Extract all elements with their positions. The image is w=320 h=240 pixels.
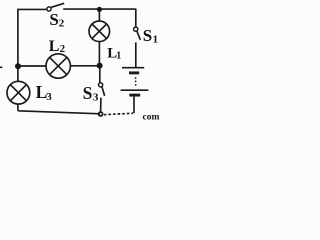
svg-text:2: 2 (60, 43, 66, 55)
label S2 (49, 10, 64, 29)
svg-text:S: S (143, 26, 152, 45)
label S1 (143, 26, 158, 45)
node: bottom junction (S3 bottom terminal) (99, 112, 103, 116)
wire: stray tick at image left edge (0, 66, 2, 68)
wire: battery down to bottom-right corner (133, 97, 135, 114)
lamp L3 (7, 81, 30, 104)
wire: lamp L1 down to mid junction (98, 42, 100, 66)
wire: switch S3 to bottom node (100, 98, 102, 113)
wire: switch S1 down to battery (135, 42, 137, 67)
svg-text:S: S (83, 83, 93, 103)
switch S3 (99, 83, 105, 96)
svg-text:3: 3 (93, 91, 99, 103)
wire: lamp L3 down to bottom-left corner (17, 104, 19, 111)
lamp L1 (89, 21, 110, 42)
svg-text:3: 3 (46, 91, 52, 103)
wire: lamp L2 to mid junction (70, 65, 99, 67)
battery cell2 short plate (129, 94, 140, 97)
label S3 (83, 83, 99, 103)
node: top junction (97, 7, 102, 12)
svg-text:1: 1 (116, 50, 121, 61)
svg-text:2: 2 (59, 17, 65, 29)
wire: middle run from left junction to lamp L2 (18, 65, 46, 67)
wire right edge (top-right corner down to switch S1) (135, 9, 137, 28)
node: mid junction (97, 63, 103, 69)
label L1 (107, 46, 121, 62)
node: left junction (15, 63, 21, 69)
battery cell1 long plate (122, 67, 144, 69)
switch S2 (47, 3, 64, 11)
label L2 (49, 38, 66, 55)
svg-text:S: S (49, 10, 58, 29)
switch S1 (134, 27, 141, 40)
label L3 (36, 82, 53, 103)
lamp L2 (46, 54, 70, 78)
wire top-left segment (18, 8, 47, 10)
wire bottom dashed part (104, 113, 133, 115)
wire: mid junction down to switch S3 (99, 66, 101, 83)
svg-text:L: L (49, 38, 60, 55)
wire: top junction down to lamp L1 (98, 9, 100, 21)
svg-text:com: com (143, 113, 160, 120)
svg-text:1: 1 (153, 33, 159, 45)
wire top-right segment (63, 8, 136, 10)
battery cell2 long plate (121, 89, 149, 91)
wire bottom run (solid part) (18, 111, 100, 114)
battery continuation dots (135, 77, 137, 86)
battery cell1 short plate (129, 71, 139, 74)
wire left edge (top-left corner down to junction and lamp L3) (17, 9, 19, 82)
battery B (two cells with dots) (121, 68, 149, 95)
